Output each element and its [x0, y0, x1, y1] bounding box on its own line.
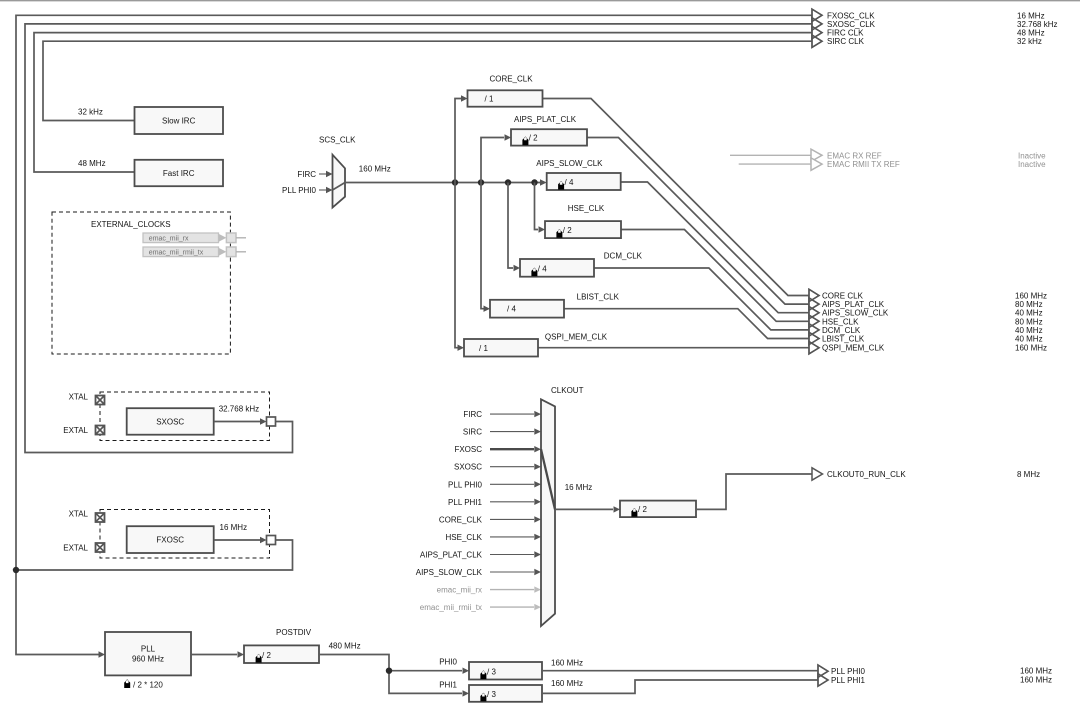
- wire FXOSC output to pad: [214, 539, 260, 541]
- pad FXOSC output: [267, 536, 276, 545]
- dashed group FXOSC: [100, 510, 270, 559]
- svg-text:emac_mii_rmii_tx: emac_mii_rmii_tx: [149, 250, 204, 257]
- wire emac_mii_rx to pad: [219, 234, 227, 242]
- svg-text:16 MHz: 16 MHz: [220, 523, 248, 532]
- svg-text:HSE_CLK: HSE_CLK: [568, 204, 605, 213]
- svg-text:8 MHz: 8 MHz: [1017, 470, 1040, 479]
- source emac_mii_rmii_tx: [143, 247, 219, 257]
- svg-text:32 kHz: 32 kHz: [78, 107, 103, 116]
- wire FXOSC tap to PLL input: [16, 570, 99, 655]
- svg-text:Inactive: Inactive: [1018, 151, 1046, 160]
- wire emac_mii_rx stub: [236, 237, 246, 239]
- wire Fast IRC to FIRC CLK port: [34, 33, 812, 172]
- svg-text:FIRC: FIRC: [463, 410, 482, 419]
- svg-text:Fast IRC: Fast IRC: [163, 169, 195, 178]
- svg-text:160 MHz: 160 MHz: [551, 679, 583, 688]
- divider LBIST_CLK /4: [490, 300, 564, 318]
- svg-text:EXTAL: EXTAL: [63, 426, 88, 435]
- svg-text:FXOSC: FXOSC: [454, 445, 482, 454]
- node trunk junction 4: [531, 179, 537, 185]
- port CLKOUT0_RUN_CLK: [812, 468, 823, 480]
- oscillator box Fast IRC: [135, 160, 224, 186]
- node trunk junction 1: [452, 179, 458, 185]
- svg-text:AIPS_PLAT_CLK: AIPS_PLAT_CLK: [420, 551, 483, 560]
- svg-text:160 MHz: 160 MHz: [1015, 344, 1047, 353]
- svg-text:/ 2: / 2: [529, 134, 538, 143]
- pad emac_mii_rx: [226, 233, 236, 243]
- svg-text:PHI0: PHI0: [439, 658, 457, 667]
- wire AIPS_SLOW_CLK into CLKOUT mux: [490, 571, 534, 573]
- wire PLL input arrowhead: [99, 651, 106, 657]
- svg-text:PLL: PLL: [141, 645, 156, 654]
- wire branch to PHI0 divider: [389, 670, 462, 672]
- svg-text:/ 2 * 120: / 2 * 120: [133, 681, 163, 690]
- svg-text:AIPS_SLOW_CLK: AIPS_SLOW_CLK: [536, 159, 603, 168]
- wire FIRC into CLKOUT mux: [490, 413, 534, 415]
- svg-text:DCM_CLK: DCM_CLK: [604, 251, 643, 260]
- wire CORE_CLK divider output to CORE CLK port: [543, 99, 810, 296]
- node FXOSC junction: [13, 567, 19, 573]
- svg-text:SIRC: SIRC: [463, 428, 482, 437]
- wire SCS_CLK trunk to AIPS_SLOW divider: [345, 182, 540, 184]
- svg-text:160 MHz: 160 MHz: [551, 658, 583, 667]
- svg-text:/ 2: / 2: [638, 505, 647, 514]
- svg-text:16 MHz: 16 MHz: [565, 483, 593, 492]
- wire HSE divider output to port: [621, 230, 809, 322]
- svg-text:emac_mii_rx: emac_mii_rx: [437, 586, 482, 595]
- divider HSE_CLK /2: [545, 221, 621, 238]
- wire branch to CORE_CLK divider: [455, 99, 461, 183]
- dashed group EXTERNAL_CLOCKS: [52, 212, 230, 354]
- svg-text:AIPS_PLAT_CLK: AIPS_PLAT_CLK: [514, 115, 577, 124]
- svg-text:160 MHz: 160 MHz: [1020, 666, 1052, 675]
- pin EXTAL fxosc: [96, 543, 105, 552]
- svg-text:PLL PHI0: PLL PHI0: [282, 186, 316, 195]
- svg-text:/ 1: / 1: [485, 95, 494, 104]
- wire LBIST divider output to port: [564, 309, 809, 339]
- svg-text:48 MHz: 48 MHz: [78, 159, 106, 168]
- svg-text:emac_mii_rx: emac_mii_rx: [149, 236, 189, 243]
- svg-text:480 MHz: 480 MHz: [329, 641, 361, 650]
- pad emac_mii_rmii_tx: [226, 247, 236, 257]
- svg-text:PLL PHI1: PLL PHI1: [448, 498, 482, 507]
- wire PLL output to POSTDIV: [191, 654, 237, 656]
- svg-text:/ 3: / 3: [487, 667, 496, 676]
- pin XTAL fxosc: [96, 513, 105, 522]
- top panel border: [0, 0, 1080, 2]
- svg-text:EMAC RX REF: EMAC RX REF: [827, 151, 882, 160]
- wire PLL PHI0 into SCS mux: [319, 189, 326, 191]
- port group EMAC inactive: [730, 154, 811, 156]
- svg-text:Inactive: Inactive: [1018, 160, 1046, 169]
- svg-text:CLKOUT0_RUN_CLK: CLKOUT0_RUN_CLK: [827, 470, 906, 479]
- divider CORE_CLK /1: [468, 90, 543, 106]
- resonator box Slow IRC: [135, 107, 224, 134]
- svg-text:PLL PHI0: PLL PHI0: [831, 667, 865, 676]
- wire PHI1 output to PLL PHI1 port: [542, 680, 818, 693]
- dashed group SXOSC: [100, 392, 270, 441]
- svg-text:POSTDIV: POSTDIV: [276, 628, 312, 637]
- svg-text:/ 2: / 2: [563, 226, 572, 235]
- divider CLKOUT /2: [620, 501, 696, 517]
- pll box PLL 960 MHz: [105, 632, 191, 675]
- svg-text:960 MHz: 960 MHz: [132, 655, 164, 664]
- wire FIRC into SCS mux: [319, 173, 326, 175]
- wire Slow IRC to SIRC CLK port: [43, 41, 812, 120]
- port group middle outputs: [809, 289, 819, 301]
- wire FXOSC into CLKOUT mux selected: [490, 448, 534, 450]
- svg-text:LBIST_CLK: LBIST_CLK: [822, 335, 865, 344]
- svg-text:EXTAL: EXTAL: [63, 544, 88, 553]
- svg-text:/ 2: / 2: [262, 651, 271, 660]
- wire QSPI divider output to port: [538, 347, 809, 349]
- lock PLL multiplier: [124, 679, 130, 688]
- svg-text:SXOSC: SXOSC: [156, 418, 184, 427]
- mux CLKOUT: [541, 399, 555, 626]
- divider PHI1 /3: [469, 685, 542, 702]
- wire AIPS_SLOW divider output to port: [621, 182, 809, 313]
- wire branch to QSPI divider: [455, 183, 458, 348]
- svg-text:QSPI_MEM_CLK: QSPI_MEM_CLK: [545, 333, 608, 342]
- svg-text:QSPI_MEM_CLK: QSPI_MEM_CLK: [822, 344, 885, 353]
- wire SXOSC output to pad: [214, 421, 260, 423]
- svg-text:32 kHz: 32 kHz: [1017, 37, 1042, 46]
- mux CLKOUT selected path FXOSC: [541, 449, 555, 509]
- wire CLKOUT divider output to CLKOUT0_RUN_CLK port: [696, 474, 812, 509]
- svg-text:CLKOUT: CLKOUT: [551, 386, 584, 395]
- svg-text:/ 4: / 4: [565, 178, 574, 187]
- wire FXOSC pad to FXOSC_CLK port: [16, 15, 812, 570]
- wire branch to HSE divider: [535, 183, 539, 230]
- svg-text:LBIST_CLK: LBIST_CLK: [577, 293, 620, 302]
- svg-text:SCS_CLK: SCS_CLK: [319, 136, 356, 145]
- wire SXOSC pad to SXOSC_CLK port: [25, 24, 812, 453]
- source emac_mii_rx: [143, 233, 219, 243]
- wire PLL PHI1 into CLKOUT mux: [490, 501, 534, 503]
- divider PHI0 /3: [469, 662, 542, 680]
- divider DCM_CLK /4: [520, 259, 594, 277]
- wire PHI0 output to PLL PHI0 port: [542, 670, 818, 672]
- svg-text:/ 3: / 3: [487, 690, 496, 699]
- svg-text:FXOSC: FXOSC: [156, 536, 184, 545]
- wire emac_mii_rx into CLKOUT mux: [490, 589, 534, 591]
- svg-text:32.768 kHz: 32.768 kHz: [1017, 20, 1057, 29]
- mux SCS_CLK: [333, 155, 346, 208]
- pad SXOSC output: [267, 417, 276, 426]
- port group PLL PHI0 PLL PHI1: [818, 665, 828, 677]
- svg-text:/ 1: / 1: [479, 344, 488, 353]
- pin EXTAL sxosc: [96, 426, 105, 435]
- node trunk junction 3: [505, 179, 511, 185]
- wire branch to DCM divider: [508, 183, 513, 269]
- svg-text:SIRC CLK: SIRC CLK: [827, 37, 865, 46]
- svg-text:CORE_CLK: CORE_CLK: [489, 75, 533, 84]
- oscillator box SXOSC: [127, 408, 214, 435]
- svg-text:HSE_CLK: HSE_CLK: [446, 533, 483, 542]
- svg-text:EMAC RMII TX REF: EMAC RMII TX REF: [827, 160, 900, 169]
- wire HSE_CLK into CLKOUT mux: [490, 536, 534, 538]
- wire branch to LBIST divider: [481, 183, 484, 309]
- svg-text:PHI1: PHI1: [439, 681, 457, 690]
- svg-text:FIRC: FIRC: [297, 170, 316, 179]
- wire AIPS_PLAT_CLK into CLKOUT mux: [490, 554, 534, 556]
- wire emac_mii_rmii_tx stub: [236, 251, 246, 253]
- divider QSPI_MEM_CLK /1: [464, 339, 538, 357]
- wire CLKOUT mux output to divider: [555, 508, 613, 510]
- divider AIPS_SLOW_CLK /4: [547, 173, 621, 190]
- node POSTDIV junction: [386, 668, 392, 674]
- port group top: FXOSC_CLK SXOSC_CLK FIRC CLK SIRC CLK: [812, 9, 822, 21]
- svg-text:AIPS_SLOW_CLK: AIPS_SLOW_CLK: [416, 568, 483, 577]
- wire SIRC into CLKOUT mux: [490, 431, 534, 433]
- svg-text:EXTERNAL_CLOCKS: EXTERNAL_CLOCKS: [91, 220, 171, 229]
- wire DCM divider output to port: [594, 268, 809, 330]
- svg-text:40 MHz: 40 MHz: [1015, 335, 1043, 344]
- wire emac_mii_rmii_tx to pad: [219, 248, 227, 256]
- oscillator box FXOSC: [127, 526, 214, 553]
- svg-text:32.768 kHz: 32.768 kHz: [219, 405, 259, 414]
- wire branch to AIPS_PLAT divider: [481, 138, 504, 183]
- wire AIPS_PLAT divider output to port: [587, 138, 809, 305]
- divider AIPS_PLAT_CLK /2: [511, 129, 587, 145]
- pin XTAL sxosc: [96, 396, 105, 405]
- wire emac_mii_rmii_tx into CLKOUT mux: [490, 606, 534, 608]
- svg-text:SXOSC_CLK: SXOSC_CLK: [827, 20, 876, 29]
- svg-text:SXOSC: SXOSC: [454, 463, 482, 472]
- svg-text:160 MHz: 160 MHz: [359, 164, 391, 173]
- svg-text:160 MHz: 160 MHz: [1020, 676, 1052, 685]
- divider POSTDIV /2: [244, 645, 319, 663]
- mux SCS selected path PLL PHI0: [333, 183, 346, 191]
- svg-text:/ 4: / 4: [538, 265, 547, 274]
- svg-text:emac_mii_rmii_tx: emac_mii_rmii_tx: [420, 603, 482, 612]
- svg-text:CORE_CLK: CORE_CLK: [439, 515, 483, 524]
- svg-text:PLL PHI1: PLL PHI1: [831, 676, 865, 685]
- svg-text:PLL PHI0: PLL PHI0: [448, 480, 482, 489]
- wire SXOSC into CLKOUT mux: [490, 466, 534, 468]
- svg-text:XTAL: XTAL: [69, 510, 89, 519]
- svg-text:XTAL: XTAL: [69, 393, 89, 402]
- wire CORE_CLK into CLKOUT mux: [490, 518, 534, 520]
- node trunk junction 2: [478, 179, 484, 185]
- wire POSTDIV output to PHI dividers: [319, 655, 462, 694]
- wire PLL PHI0 into CLKOUT mux: [490, 483, 534, 485]
- svg-text:/ 4: / 4: [507, 305, 516, 314]
- svg-text:Slow IRC: Slow IRC: [162, 117, 196, 126]
